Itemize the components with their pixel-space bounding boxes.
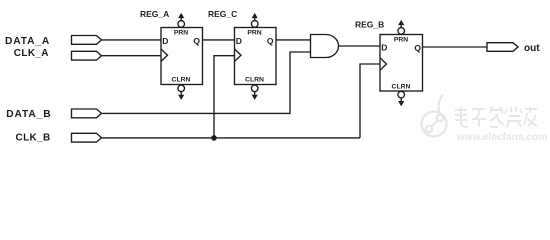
svg-text:PRN: PRN bbox=[394, 36, 408, 43]
svg-text:CLK_A: CLK_A bbox=[14, 48, 49, 59]
junction dot CLK_B net bbox=[211, 135, 217, 141]
input port DATA_A bbox=[72, 36, 102, 45]
REG_A CLRN bubble and vcc marker bbox=[178, 85, 185, 92]
svg-text:D: D bbox=[236, 36, 242, 46]
svg-text:REG_C: REG_C bbox=[208, 9, 237, 19]
flip-flop REG_A bbox=[161, 14, 203, 98]
svg-text:DATA_A: DATA_A bbox=[5, 36, 50, 47]
REG_C clock triangle bbox=[235, 49, 242, 61]
flip-flop REG_B bbox=[380, 21, 423, 105]
REG_B PRN bubble and vcc marker bbox=[398, 28, 405, 35]
AND gate bbox=[311, 35, 339, 58]
wire CLK_B riser to REG_C CLK bbox=[214, 56, 235, 138]
svg-text:Q: Q bbox=[267, 36, 274, 46]
svg-text:Q: Q bbox=[193, 36, 200, 46]
watermark text chinese bbox=[455, 107, 537, 127]
svg-text:CLRN: CLRN bbox=[245, 76, 264, 83]
svg-text:PRN: PRN bbox=[174, 29, 188, 36]
svg-text:CLRN: CLRN bbox=[172, 76, 191, 83]
REG_B clock triangle bbox=[380, 58, 387, 70]
wire REG_A Q to REG_C D bbox=[203, 39, 235, 41]
input port DATA_B bbox=[72, 109, 102, 118]
flip-flop REG_C bbox=[235, 14, 277, 98]
wire DATA_A to REG_A D bbox=[102, 39, 162, 41]
REG_A PRN bubble and vcc marker bbox=[178, 21, 185, 28]
svg-text:D: D bbox=[162, 36, 168, 46]
input port CLK_B bbox=[72, 133, 102, 142]
REG_A body bbox=[161, 28, 203, 85]
REG_A clock triangle bbox=[161, 49, 168, 61]
REG_C CLRN bubble and vcc marker bbox=[251, 85, 258, 92]
output port out bbox=[487, 43, 518, 52]
REG_C body bbox=[235, 28, 277, 85]
svg-text:D: D bbox=[381, 42, 387, 52]
wire DATA_B to AND gate input bbox=[102, 52, 311, 113]
wire AND output to REG_B D bbox=[339, 45, 381, 47]
REG_B body bbox=[380, 35, 423, 92]
svg-text:REG_B: REG_B bbox=[355, 19, 384, 29]
wire REG_B Q to output port bbox=[423, 46, 488, 48]
svg-text:out: out bbox=[524, 43, 540, 54]
wire CLK_B main run bbox=[102, 137, 361, 139]
svg-text:PRN: PRN bbox=[247, 29, 261, 36]
svg-text:DATA_B: DATA_B bbox=[6, 109, 51, 120]
svg-text:CLK_B: CLK_B bbox=[16, 132, 51, 143]
svg-text:www.elecfans.com: www.elecfans.com bbox=[456, 132, 548, 143]
watermark logo elecfans bbox=[422, 95, 447, 137]
wire CLK_B riser to REG_B CLK bbox=[360, 64, 380, 138]
svg-text:REG_A: REG_A bbox=[140, 9, 169, 19]
svg-text:Q: Q bbox=[414, 43, 421, 53]
REG_C PRN bubble and vcc marker bbox=[251, 21, 258, 28]
wire CLK_A to REG_A CLK bbox=[102, 55, 162, 57]
wire REG_C Q to AND gate input bbox=[276, 39, 311, 41]
input port CLK_A bbox=[72, 51, 102, 60]
svg-text:CLRN: CLRN bbox=[392, 83, 411, 90]
REG_B CLRN bubble and vcc marker bbox=[398, 91, 405, 98]
